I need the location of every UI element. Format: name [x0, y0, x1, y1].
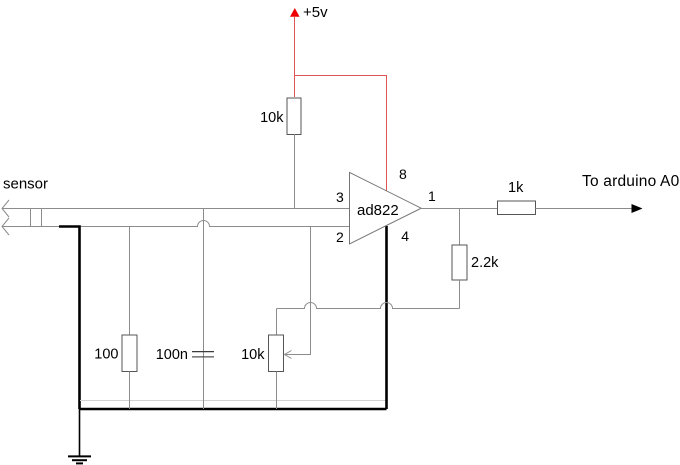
svg-text:100: 100: [94, 347, 118, 363]
wire thick ground rail: [80, 408, 387, 411]
svg-text:2.2k: 2.2k: [471, 255, 499, 271]
svg-text:3: 3: [336, 189, 344, 205]
svg-text:10k: 10k: [260, 110, 284, 126]
wire 2.2k bottom: [459, 280, 461, 309]
wire output node down to 2.2k: [459, 209, 461, 246]
resistor R4 1k: [498, 180, 536, 215]
svg-text:1k: 1k: [508, 180, 524, 196]
svg-text:100n: 100n: [156, 347, 188, 363]
resistor R2 100: [94, 227, 137, 410]
connector J1 jack: [2, 200, 42, 235]
resistor R5 2.2k: [452, 245, 499, 280]
wire thick op-amp pin4 down to rail: [385, 226, 388, 409]
svg-text:4: 4: [401, 228, 409, 244]
svg-text:10k: 10k: [241, 347, 265, 363]
svg-text:To arduino A0: To arduino A0: [582, 173, 680, 190]
svg-text:1: 1: [428, 188, 436, 204]
wire node pin2 net horizontal with hop over cap: [2, 221, 350, 227]
wire faint rail: [80, 400, 386, 402]
output arrowhead: [632, 204, 643, 213]
svg-text:sensor: sensor: [3, 176, 48, 193]
wire 10k bottom to pin3 net: [294, 134, 296, 209]
svg-text:2: 2: [336, 229, 344, 245]
ground: [68, 409, 91, 463]
wire op-amp output to 1k: [422, 208, 498, 210]
wire +5v branch to op-amp pin 8: [295, 76, 387, 192]
wire 1k to arduino arrow: [536, 208, 633, 210]
svg-text:8: 8: [399, 166, 407, 182]
svg-text:+5v: +5v: [303, 4, 328, 21]
power symbol +5v: [290, 4, 328, 21]
resistor R1 10k pull-up: [260, 98, 301, 135]
potentiometer R3 10k: [241, 309, 283, 410]
capacitor C1 100n: [156, 209, 214, 410]
wire feedback horizontal with hops: [277, 303, 460, 309]
wire pot wiper to pin2 net: [285, 227, 311, 359]
wire thick ground from jack down: [59, 227, 80, 410]
op-amp U1 ad822: [336, 166, 436, 245]
svg-text:ad822: ad822: [357, 202, 399, 219]
wire node pin3 net horizontal: [2, 208, 350, 210]
wire +5v down to 10k resistor: [294, 17, 296, 97]
